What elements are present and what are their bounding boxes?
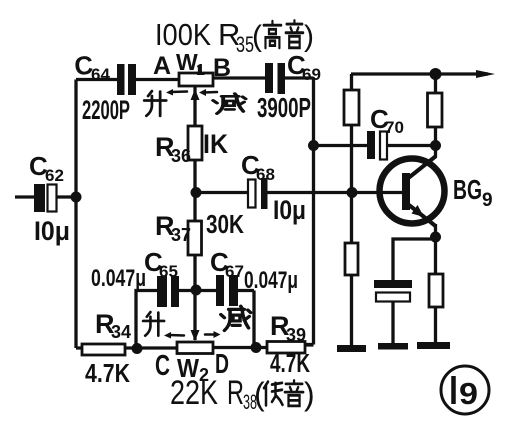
svg-text:I00K: I00K: [155, 17, 211, 52]
svg-text:): ): [304, 376, 315, 412]
svg-text:67: 67: [225, 262, 244, 281]
svg-text:B: B: [213, 54, 231, 82]
svg-text:65: 65: [159, 262, 178, 281]
svg-text:4.7K: 4.7K: [85, 358, 130, 388]
svg-text:BG: BG: [453, 174, 482, 205]
svg-text:1: 1: [196, 62, 205, 79]
svg-text:36: 36: [171, 146, 191, 166]
svg-text:IK: IK: [203, 129, 228, 159]
svg-text:39: 39: [286, 325, 306, 345]
svg-text:(: (: [254, 376, 265, 412]
svg-text:4.7K: 4.7K: [270, 348, 310, 378]
svg-text:9: 9: [482, 190, 493, 211]
svg-text:C: C: [155, 350, 170, 382]
svg-text:68: 68: [256, 165, 275, 184]
svg-text:W: W: [176, 49, 198, 75]
svg-text:70: 70: [385, 118, 404, 137]
svg-text:9: 9: [459, 376, 478, 411]
svg-text:I0μ: I0μ: [273, 195, 306, 225]
svg-text:3900P: 3900P: [257, 92, 311, 123]
svg-text:): ): [304, 20, 314, 53]
svg-text:(: (: [252, 20, 262, 53]
svg-text:30K: 30K: [206, 209, 244, 239]
svg-text:I0μ: I0μ: [34, 216, 70, 246]
svg-text:69: 69: [302, 65, 321, 84]
svg-text:R: R: [227, 374, 244, 412]
svg-text:37: 37: [171, 225, 191, 245]
svg-text:34: 34: [111, 322, 131, 342]
svg-text:64: 64: [91, 65, 110, 84]
svg-text:22K: 22K: [170, 374, 218, 412]
svg-text:A: A: [153, 52, 171, 80]
svg-text:0.047μ: 0.047μ: [91, 265, 146, 292]
svg-text:62: 62: [45, 166, 64, 185]
svg-text:2200P: 2200P: [82, 95, 130, 125]
svg-text:0.047μ: 0.047μ: [244, 267, 298, 294]
